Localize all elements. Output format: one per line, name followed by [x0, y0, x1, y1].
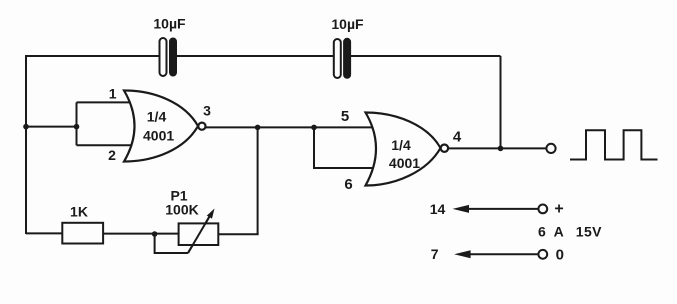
svg-text:100K: 100K — [165, 202, 198, 218]
svg-text:+: + — [554, 201, 563, 218]
svg-text:4001: 4001 — [389, 155, 420, 171]
svg-text:14: 14 — [430, 201, 446, 217]
svg-text:10µF: 10µF — [331, 16, 364, 32]
svg-text:3: 3 — [203, 103, 211, 119]
svg-text:7: 7 — [431, 246, 439, 262]
svg-text:1K: 1K — [70, 204, 88, 220]
svg-text:6: 6 — [344, 176, 352, 193]
svg-text:10µF: 10µF — [153, 16, 186, 32]
svg-text:0: 0 — [556, 246, 564, 263]
svg-text:4001: 4001 — [143, 128, 174, 144]
svg-text:4: 4 — [453, 129, 462, 146]
svg-text:1/4: 1/4 — [147, 109, 167, 125]
svg-text:1/4: 1/4 — [391, 137, 411, 153]
svg-text:1: 1 — [109, 86, 117, 102]
svg-text:5: 5 — [341, 108, 349, 125]
svg-text:2: 2 — [108, 147, 116, 163]
svg-text:6 A 15V: 6 A 15V — [538, 224, 602, 240]
